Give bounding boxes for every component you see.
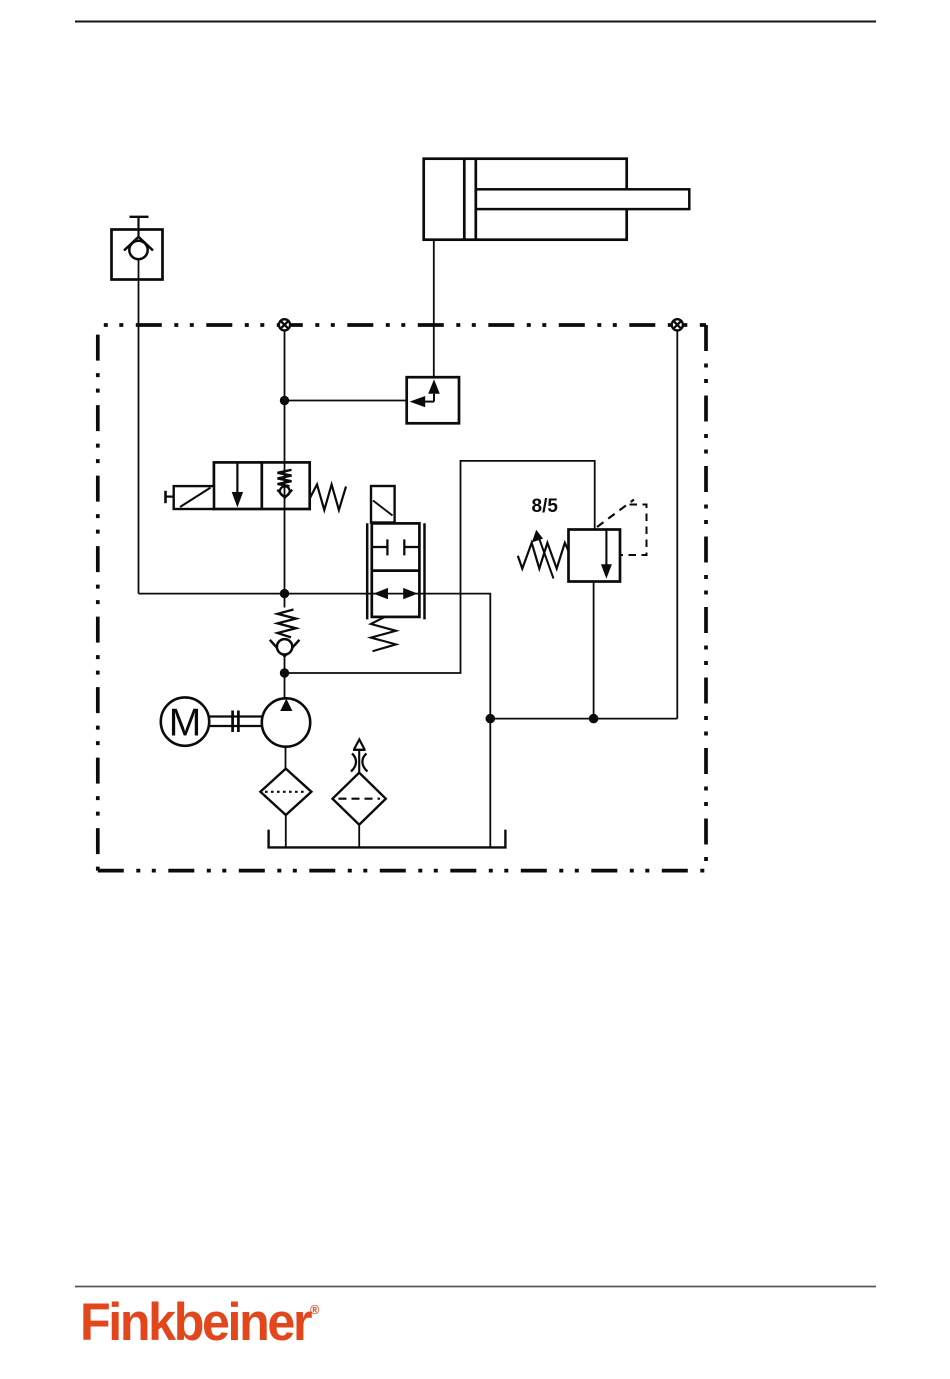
- solenoid: [371, 486, 395, 523]
- wire: pump suction: [285, 747, 287, 769]
- wire: branch to flow-control box: [285, 400, 407, 402]
- manual pin: [166, 496, 174, 498]
- pilot dashes: [597, 500, 634, 528]
- node: junction drain right: [589, 714, 599, 724]
- relief valve RV1 "8/5": [518, 500, 647, 582]
- directional valve DV1 (2/2, lever + spring return): [166, 462, 347, 510]
- node: junction at pilot branch: [280, 396, 289, 405]
- cylinder (top right): [424, 159, 690, 240]
- check valve CV1 (spring loaded, above pump): [270, 610, 300, 657]
- wire: strainer to tank: [285, 815, 287, 847]
- spring below: [371, 617, 396, 651]
- top rule: [75, 21, 876, 23]
- wire: branch to relief valve: [285, 461, 595, 673]
- wire: bottom collector: [490, 718, 677, 720]
- flow control / check box: [407, 377, 459, 423]
- bottom rule: [75, 1286, 876, 1288]
- pump P1: [262, 698, 310, 746]
- right position: spring-loaded check: [278, 470, 292, 486]
- test point TP left (circled X on boundary): [279, 319, 290, 330]
- svg-text:M: M: [169, 702, 202, 745]
- wire: breather to tank: [358, 825, 360, 848]
- node: junction P / valve line: [280, 589, 289, 598]
- filler breather F2: [333, 740, 386, 825]
- open position double arrow: [372, 593, 420, 595]
- Finkbeiner logo: [80, 1296, 319, 1349]
- wire: cylinder to flow-control box: [433, 240, 435, 378]
- adjustment arrow: [540, 540, 554, 579]
- node: junction pump outlet: [280, 668, 289, 677]
- spring: [518, 543, 569, 569]
- wire: valve outlet line: [285, 594, 491, 848]
- wire: horizontal to pressure node: [139, 593, 285, 595]
- breather check valve box (top-left): [112, 217, 163, 280]
- suction strainer F1: [260, 769, 311, 815]
- svg-text:8/5: 8/5: [532, 496, 559, 517]
- wire: relief valve drain: [593, 582, 595, 719]
- power unit boundary (dash-dot enclosure): [98, 325, 706, 871]
- return spring: [310, 485, 346, 511]
- node: junction drain left: [486, 714, 496, 724]
- motor M1: [161, 697, 209, 745]
- left position: arrow down: [236, 462, 238, 494]
- wire: main pressure line (upper part): [284, 330, 286, 607]
- solenoid cartridge valve SV1 (2/2 NC): [367, 486, 424, 651]
- wire: right boundary drain from TP right: [676, 330, 678, 718]
- wire: breather check valve drop line: [138, 259, 140, 594]
- blocked ports: [372, 546, 388, 548]
- wire: main pressure line (lower part to pump): [284, 654, 286, 700]
- test point TP right (circled X on boundary): [672, 319, 683, 330]
- solenoid box: [174, 486, 214, 509]
- tank: [269, 830, 506, 848]
- coupling: [209, 711, 262, 733]
